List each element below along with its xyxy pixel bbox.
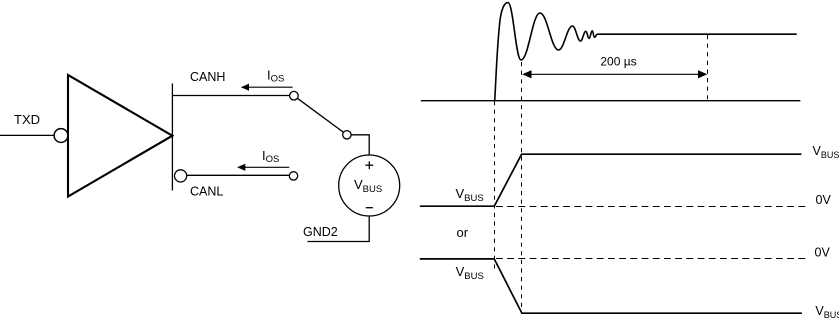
svg-text:TXD: TXD [14, 112, 40, 127]
svg-text:CANL: CANL [190, 185, 223, 199]
svg-text:or: or [457, 225, 469, 240]
svg-text:0V: 0V [816, 193, 832, 207]
svg-text:0V: 0V [815, 246, 831, 260]
svg-text:GND2: GND2 [303, 225, 338, 239]
svg-text:200 µs: 200 µs [600, 55, 636, 69]
svg-text:CANH: CANH [190, 70, 225, 84]
